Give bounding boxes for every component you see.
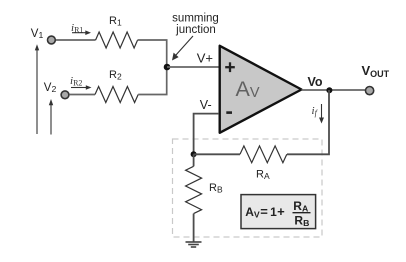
gain formula box xyxy=(241,195,316,229)
voltage arrow V2 xyxy=(49,99,53,135)
svg-text:if: if xyxy=(312,105,319,118)
svg-text:Vo: Vo xyxy=(308,75,323,89)
resistor R1 xyxy=(96,32,138,48)
wire V1 to R1 xyxy=(56,39,96,41)
op-amp U1 xyxy=(220,46,302,133)
wire V- node to RB xyxy=(193,154,195,166)
wire op-amp output to VOUT xyxy=(302,89,366,91)
svg-text:iR2: iR2 xyxy=(70,75,82,88)
wire summing junction to op-amp V+ xyxy=(167,66,219,68)
svg-text:+: + xyxy=(277,204,285,219)
resistor RB xyxy=(186,166,202,213)
wire R1 to summing junction xyxy=(138,40,167,67)
svg-text:junction: junction xyxy=(175,24,216,36)
svg-text:summing: summing xyxy=(172,13,219,25)
terminal V1 xyxy=(48,36,56,44)
svg-text:R2: R2 xyxy=(109,69,122,82)
svg-text:=: = xyxy=(260,204,268,219)
svg-text:V1: V1 xyxy=(31,28,44,40)
resistor R2 xyxy=(95,87,138,103)
wire RB to ground xyxy=(193,214,195,242)
svg-text:RA: RA xyxy=(256,169,270,182)
current arrow if xyxy=(319,104,324,124)
terminal V2 xyxy=(61,91,69,99)
current arrow iR1 xyxy=(72,30,91,35)
svg-text:V-: V- xyxy=(200,98,212,112)
wire output junction to RA branch xyxy=(287,90,329,154)
svg-text:RB: RB xyxy=(209,182,223,195)
svg-text:R1: R1 xyxy=(109,15,122,28)
svg-text:1: 1 xyxy=(270,205,277,219)
node V- feedback junction xyxy=(191,151,197,157)
resistor RA xyxy=(240,146,287,163)
wire op-amp V- to feedback node xyxy=(194,114,219,154)
voltage arrow V1 xyxy=(35,44,39,134)
wire V- node to RA xyxy=(194,153,240,155)
node summing junction xyxy=(164,64,171,71)
svg-text:VOUT: VOUT xyxy=(362,63,390,79)
ground xyxy=(186,242,202,247)
current arrow iR2 xyxy=(71,85,92,90)
summing junction annotation arrow xyxy=(172,36,193,61)
wire V2 to R2 xyxy=(70,94,95,96)
feedback network dashed box xyxy=(173,139,323,237)
svg-text:V+: V+ xyxy=(197,50,213,65)
node output junction xyxy=(326,87,332,93)
svg-text:V2: V2 xyxy=(44,82,57,94)
wire R2 to summing junction xyxy=(138,67,167,95)
terminal VOUT xyxy=(366,87,374,95)
